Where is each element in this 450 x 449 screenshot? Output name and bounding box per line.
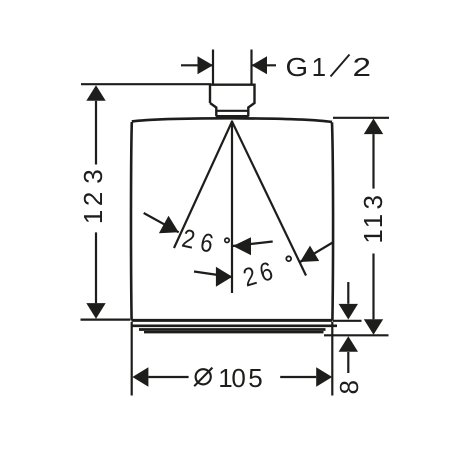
svg-text:3: 3 xyxy=(78,169,108,183)
svg-text:3: 3 xyxy=(358,195,388,209)
svg-text:0: 0 xyxy=(231,363,245,393)
svg-text:8: 8 xyxy=(334,380,364,394)
svg-text:5: 5 xyxy=(248,363,262,393)
svg-text:1: 1 xyxy=(312,52,326,82)
svg-text:1: 1 xyxy=(78,210,108,224)
svg-text:1: 1 xyxy=(358,229,388,243)
svg-text:2: 2 xyxy=(78,192,108,206)
svg-text:G: G xyxy=(286,52,309,81)
svg-text:2: 2 xyxy=(353,53,372,82)
svg-text:1: 1 xyxy=(358,214,388,228)
